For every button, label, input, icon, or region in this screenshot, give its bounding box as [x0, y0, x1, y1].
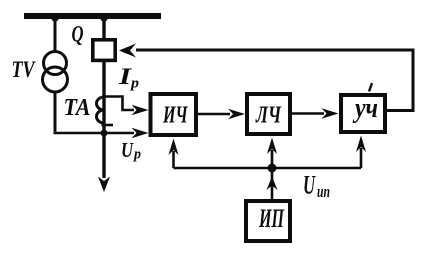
svg-text:уч: уч	[352, 93, 378, 124]
wire: feeder line through TA	[102, 62, 105, 178]
box IP (power supply)	[246, 201, 290, 241]
arrowhead: LC to UC	[322, 108, 339, 118]
wire: riser to IC	[172, 151, 175, 168]
wire Up: TV to IC box	[54, 132, 135, 135]
wire: riser to LC	[271, 150, 274, 168]
transformer TV	[44, 52, 67, 75]
arrowhead: feedback into Q	[119, 44, 136, 58]
box UC (output unit)	[341, 95, 385, 132]
arrowhead: feeder down	[98, 177, 110, 193]
svg-text:ИП: ИП	[258, 204, 284, 233]
arrowhead: riser into IC	[169, 139, 179, 156]
breaker Q	[93, 40, 115, 61]
wire: TA bottom tap	[102, 124, 114, 127]
box IC (measuring unit)	[151, 94, 197, 135]
arrowhead: IC to LC	[228, 109, 245, 119]
svg-text:р: р	[129, 76, 140, 92]
arrowhead: riser into UC	[356, 136, 366, 153]
tick above UC	[369, 83, 372, 92]
wire: supply distribution line	[174, 167, 362, 170]
wire: busbar to Q	[102, 16, 105, 40]
arrowhead: Up into IC	[132, 128, 149, 138]
box LC (logic unit)	[247, 94, 290, 134]
svg-text:ип: ип	[317, 182, 330, 201]
svg-text:р: р	[132, 147, 141, 163]
node: supply junction	[268, 164, 277, 173]
arrowhead: Ip into IC	[132, 105, 149, 115]
wire: UC output feedback to Q	[136, 50, 413, 111]
svg-text:ИЧ: ИЧ	[162, 103, 188, 129]
wire: riser to UC	[360, 148, 363, 168]
wire Ip: TA to IC box	[104, 97, 134, 111]
wire: IP to junction	[271, 168, 274, 199]
svg-text:ЛЧ: ЛЧ	[255, 103, 281, 129]
arrowhead: IP up	[267, 177, 278, 191]
svg-text:TA: TA	[64, 95, 91, 121]
svg-text:U: U	[121, 138, 134, 162]
arrowhead: riser into LC	[267, 138, 277, 155]
busbar	[24, 13, 161, 19]
wire: LC to UC	[292, 112, 324, 115]
svg-text:TV: TV	[12, 57, 36, 82]
node: Up wire crosses feeder	[101, 130, 108, 137]
node: busbar-Q junction	[100, 14, 108, 22]
node: busbar-TV junction	[51, 14, 59, 22]
svg-text:Q: Q	[72, 22, 84, 47]
transformer TA winding	[97, 97, 104, 123]
wire: busbar to TV	[54, 16, 57, 52]
svg-text:U: U	[303, 171, 316, 200]
wire: IC to LC	[198, 113, 230, 116]
wire: TV down to Up wire	[54, 92, 57, 132]
